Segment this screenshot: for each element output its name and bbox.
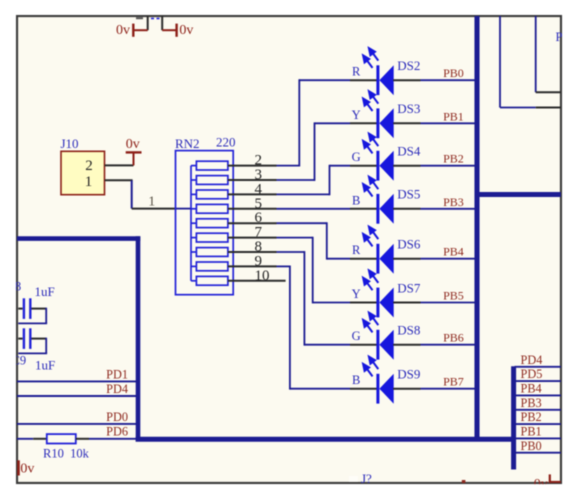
resistor R10 right lead	[76, 438, 89, 440]
artifact patch (bottom)	[349, 476, 358, 482]
wire RN2 pin8 elbow	[277, 251, 305, 253]
svg-text:DS7: DS7	[397, 280, 421, 295]
wire J10 pin2 to 0v	[105, 164, 134, 166]
LED DS5 triangle	[379, 194, 393, 224]
LED DS8 triangle	[379, 330, 393, 360]
LED DS3 triangle	[379, 108, 393, 138]
resistor-network RN2 outline	[176, 151, 234, 295]
LED DS4 emission arrows	[363, 134, 378, 154]
connector J10 body	[61, 151, 105, 194]
LED DS5 cathode bar	[376, 194, 379, 224]
RN2 common line (pin 1 bus)	[190, 166, 192, 281]
svg-text:10: 10	[255, 268, 270, 284]
svg-text:DS2: DS2	[397, 58, 420, 73]
LED DS3 cathode bar	[376, 108, 379, 138]
LED DS4 cathode pin	[393, 165, 420, 167]
resistor RN2 element 3	[191, 190, 228, 199]
power 0v (at J10 pin 2)	[126, 137, 142, 166]
wire PD4 (left)	[17, 395, 136, 397]
svg-text:PB4: PB4	[443, 245, 464, 259]
wire DS6 to bus	[421, 258, 476, 260]
wire RN2 pin3 elbow	[277, 179, 315, 181]
wire R10 to bus	[89, 438, 136, 440]
resistor RN2 element 2	[191, 176, 228, 185]
wire RN2 pin6 elbow	[277, 222, 327, 224]
svg-text:1uF: 1uF	[35, 358, 55, 373]
svg-text:0v: 0v	[116, 23, 130, 38]
wire DS9 row horizontal	[290, 388, 350, 390]
wire PB4 (right column)	[515, 394, 561, 396]
svg-text:1: 1	[148, 195, 155, 210]
svg-text:DS9: DS9	[397, 367, 420, 382]
bus (right-column vertical)	[511, 366, 516, 469]
svg-text:B: B	[352, 193, 360, 207]
wire PD1 (left)	[17, 380, 136, 382]
LED DS5 cathode pin	[393, 208, 420, 210]
wire J10 pin1 vertical	[131, 180, 133, 208]
svg-text:Y: Y	[352, 287, 361, 301]
LED DS4 cathode bar	[376, 151, 379, 181]
resistor RN2 element 5	[191, 219, 228, 228]
svg-text:R10 10k: R10 10k	[43, 447, 90, 461]
LED DS6 anode pin	[350, 258, 377, 260]
LED DS2 anode pin	[350, 79, 377, 81]
wire (cut stub to top border, left)	[147, 16, 149, 30]
wire RN2 pin2 elbow	[277, 165, 300, 167]
svg-text:PD0: PD0	[106, 410, 128, 424]
resistor R10 body	[47, 434, 76, 443]
power 0v (bottom left, cut)	[19, 460, 35, 476]
svg-text:PD4: PD4	[521, 353, 543, 367]
LED DS7 emission arrows	[363, 270, 378, 290]
LED DS6 cathode pin	[393, 258, 420, 260]
pin 8 lead (RN2)	[228, 251, 277, 253]
svg-text:0v: 0v	[126, 137, 140, 152]
svg-text:PB3: PB3	[443, 195, 464, 209]
wire RN2 pin5 to DS5	[277, 208, 351, 210]
LED DS2 emission arrows	[363, 48, 378, 68]
svg-text:DS8: DS8	[397, 323, 420, 338]
wire PD4 (right column)	[515, 366, 561, 368]
wire vertical pin9 to DS9 row	[289, 266, 291, 390]
LED DS7 anode pin	[350, 302, 377, 304]
wire DS9 to bus	[421, 388, 476, 390]
power 0v (top centre)	[162, 23, 193, 38]
wire PD5 (right column)	[515, 380, 561, 382]
svg-text:PD1: PD1	[106, 367, 128, 381]
wire DS6 row horizontal	[327, 258, 350, 260]
wire J10 pin1 horizontal	[105, 179, 133, 181]
white margin bottom	[0, 484, 587, 497]
LED DS3 cathode pin	[393, 122, 420, 124]
wire DS7 row horizontal	[313, 302, 350, 304]
svg-text:1uF: 1uF	[35, 284, 55, 299]
svg-text:0v: 0v	[20, 462, 34, 477]
component fragment (cut at top border)	[136, 17, 143, 19]
LED DS3 emission arrows	[363, 91, 378, 111]
svg-text:PB2: PB2	[443, 152, 464, 166]
wire RN2 pin9 elbow	[277, 265, 290, 267]
LED DS2 cathode bar	[376, 65, 379, 95]
svg-text:J10: J10	[61, 136, 79, 151]
wire vertical pin3 to DS3 row	[314, 122, 316, 180]
LED DS7 triangle	[379, 288, 393, 318]
resistor RN2 element 6	[191, 233, 228, 242]
svg-text:R: R	[352, 65, 361, 79]
wire PB3 (right column)	[515, 409, 561, 411]
resistor RN2 element 9	[191, 276, 228, 285]
pin lead (cut component right, upper)	[536, 91, 561, 93]
wire vertical pin6 to DS6 row	[326, 222, 328, 259]
wire pin1 to RN2 (black part)	[132, 208, 177, 210]
wire DS4 row horizontal	[330, 165, 351, 167]
wire (top right outer horizontal)	[500, 107, 536, 109]
svg-text:PD6: PD6	[106, 425, 128, 439]
label fragment (cut at bottom border)	[462, 480, 466, 483]
svg-text:J?: J?	[361, 471, 372, 486]
wire DS2 to bus	[421, 79, 476, 81]
wire border to R10	[17, 438, 33, 440]
pin 6 lead (RN2)	[228, 222, 277, 224]
LED DS9 triangle	[379, 374, 393, 404]
capacitor C8	[18, 298, 47, 323]
wire DS7 to bus	[421, 302, 476, 304]
LED DS6 triangle	[379, 244, 393, 274]
wire DS2 row horizontal	[299, 79, 350, 81]
svg-text:R: R	[352, 243, 361, 257]
bus (right horizontal)	[477, 192, 561, 197]
LED DS2 cathode pin	[393, 79, 420, 81]
white margin left	[0, 0, 16, 497]
resistor RN2 element 4	[191, 204, 228, 213]
svg-text:DS6: DS6	[397, 237, 421, 252]
LED DS4 anode pin	[350, 165, 377, 167]
wire RN2 pin7 elbow	[277, 237, 313, 239]
wire vertical pin2 to DS2 row	[298, 79, 300, 166]
LED DS9 emission arrows	[363, 357, 378, 377]
bus (bottom horizontal)	[136, 437, 516, 442]
svg-text:2: 2	[85, 158, 93, 174]
LED DS8 cathode pin	[393, 344, 420, 346]
svg-text:PB2: PB2	[521, 410, 542, 424]
wire PB2 (right column)	[515, 423, 561, 425]
pin 9 lead (RN2)	[228, 265, 277, 267]
bus (left horizontal)	[17, 236, 140, 241]
svg-text:PB4: PB4	[521, 382, 542, 396]
svg-text:PB5: PB5	[443, 289, 464, 303]
wire RN2 pin4 elbow	[277, 193, 330, 195]
svg-text:Y: Y	[352, 108, 361, 122]
LED DS9 cathode bar	[376, 374, 379, 404]
svg-text:PD5: PD5	[521, 367, 543, 381]
wire DS3 row horizontal	[315, 122, 351, 124]
svg-text:0v: 0v	[179, 23, 193, 38]
LED DS2 triangle	[379, 65, 393, 95]
bus (left vertical)	[136, 236, 141, 441]
svg-text:PB0: PB0	[521, 439, 542, 453]
LED DS8 cathode bar	[376, 330, 379, 360]
bus (right main vertical)	[474, 16, 479, 442]
LED DS5 emission arrows	[363, 177, 378, 197]
wire (top right inner vertical)	[535, 16, 537, 92]
LED DS9 cathode pin	[393, 388, 420, 390]
svg-text:P: P	[556, 30, 563, 44]
wire pin1 to RN2 (navy part)	[177, 208, 192, 210]
white margin top	[0, 0, 587, 15]
svg-text:PB6: PB6	[443, 331, 464, 345]
svg-text:PB7: PB7	[443, 375, 464, 389]
capacitor C9	[18, 328, 47, 353]
wire vertical pin4 to DS4 row	[329, 165, 331, 196]
svg-text:1: 1	[85, 174, 93, 190]
wire PB1 (right column)	[515, 437, 561, 439]
white margin right	[562, 0, 587, 497]
pin 10 lead (RN2)	[228, 280, 286, 282]
LED DS7 cathode pin	[393, 302, 420, 304]
LED DS9 anode pin	[350, 388, 377, 390]
resistor RN2 element 8	[191, 262, 228, 271]
LED DS3 anode pin	[350, 122, 377, 124]
LED DS8 anode pin	[350, 344, 377, 346]
wire (cut stub to top border, right)	[161, 16, 163, 30]
resistor R10 left lead	[33, 438, 47, 440]
power 0v (top left)	[116, 23, 148, 38]
LED DS8 emission arrows	[363, 313, 378, 333]
wire PB0 (right column)	[515, 452, 561, 454]
svg-text:PD4: PD4	[106, 382, 128, 396]
svg-text:PB1: PB1	[443, 109, 464, 123]
svg-text:PB3: PB3	[521, 396, 542, 410]
wire DS4 to bus	[421, 165, 476, 167]
wire PD0 (left)	[17, 423, 136, 425]
wire (top right outer vertical)	[499, 16, 501, 108]
LED DS6 cathode bar	[376, 244, 379, 274]
svg-text:RN2: RN2	[175, 136, 200, 151]
svg-text:DS5: DS5	[397, 187, 420, 202]
pin 2 lead (RN2)	[228, 165, 277, 167]
LED DS4 triangle	[379, 151, 393, 181]
pin 4 lead (RN2)	[228, 193, 277, 195]
wire vertical pin8 to DS8 row	[303, 251, 305, 346]
resistor RN2 element 1	[191, 161, 228, 170]
svg-text:PB1: PB1	[521, 425, 542, 439]
svg-text:220: 220	[216, 134, 236, 149]
pin 7 lead (RN2)	[228, 237, 277, 239]
power 0v (bottom right)	[534, 474, 561, 492]
wire DS8 to bus	[421, 344, 476, 346]
LED DS6 emission arrows	[363, 227, 378, 247]
LED DS7 cathode bar	[376, 288, 379, 318]
label fragment (cut at top border)	[151, 18, 160, 20]
wire DS3 to bus	[421, 122, 476, 124]
pin lead (cut component right, lower)	[536, 107, 561, 109]
resistor RN2 element 7	[191, 248, 228, 257]
LED DS5 anode pin	[350, 208, 377, 210]
pin 5 lead (RN2)	[228, 208, 277, 210]
wire DS8 row horizontal	[304, 344, 350, 346]
svg-text:DS3: DS3	[397, 101, 420, 116]
wire vertical pin7 to DS7 row	[312, 237, 314, 304]
svg-text:G: G	[352, 150, 361, 164]
wire DS5 to bus	[421, 208, 476, 210]
svg-text:B: B	[352, 373, 360, 387]
svg-text:PB0: PB0	[443, 66, 464, 80]
svg-text:DS4: DS4	[397, 144, 421, 159]
svg-text:G: G	[352, 329, 361, 343]
pin 3 lead (RN2)	[228, 179, 277, 181]
